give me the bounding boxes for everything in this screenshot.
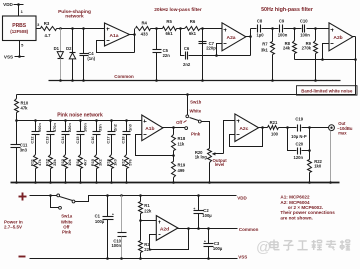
svg-text:120n: 120n xyxy=(294,155,304,160)
op-amp A1b xyxy=(142,115,163,141)
node R9 top xyxy=(314,27,317,30)
svg-text:D2: D2 xyxy=(66,46,72,51)
node C19 left xyxy=(286,126,289,129)
svg-text:@: @ xyxy=(256,239,271,256)
svg-text:Pink noise network: Pink noise network xyxy=(57,113,103,119)
svg-text:Band-limited white noise: Band-limited white noise xyxy=(301,89,353,94)
capacitor C10 supply xyxy=(111,196,126,259)
node A2b feedback left xyxy=(321,58,324,61)
capacitor C4 xyxy=(80,29,96,81)
svg-text:6k1: 6k1 xyxy=(166,31,174,36)
svg-text:R3: R3 xyxy=(44,21,50,26)
node 2 xyxy=(179,27,182,30)
resistor R4 xyxy=(136,21,151,37)
svg-text:R6: R6 xyxy=(190,19,196,24)
svg-text:499: 499 xyxy=(178,168,186,173)
svg-text:22k: 22k xyxy=(52,158,57,165)
node common rail at R9 xyxy=(314,79,317,82)
terminal plus xyxy=(19,193,27,201)
node common rail at R17 xyxy=(125,181,128,184)
svg-text:470n: 470n xyxy=(52,123,57,132)
capacitor C6 xyxy=(181,29,217,68)
svg-text:3k1: 3k1 xyxy=(261,48,269,53)
node C2 bottom xyxy=(197,227,200,230)
svg-text:2n2: 2n2 xyxy=(113,123,118,131)
resistor R7 xyxy=(261,29,275,81)
svg-text:3n3: 3n3 xyxy=(20,147,28,152)
op-amp A2a xyxy=(222,23,246,51)
node common rail at jack xyxy=(329,181,332,184)
node switch input xyxy=(49,194,52,197)
resistor R13 xyxy=(60,155,72,183)
wire A2a output xyxy=(246,36,251,38)
IC PRBS (12F508) xyxy=(3,16,37,41)
svg-text:6k1: 6k1 xyxy=(189,31,197,36)
svg-text:level: level xyxy=(215,162,225,167)
capacitor C18 xyxy=(120,121,132,155)
node common rail at C7 xyxy=(201,79,204,82)
svg-text:C17: C17 xyxy=(105,136,110,143)
wire A2d output xyxy=(178,228,238,230)
node C4 top xyxy=(82,27,85,30)
resistor R8 xyxy=(283,29,297,60)
wire output jack shield xyxy=(330,131,332,183)
svg-text:network: network xyxy=(65,13,84,19)
svg-text:100n: 100n xyxy=(300,33,310,38)
node common rail at R16 xyxy=(110,181,113,184)
wire A2b output xyxy=(353,37,356,95)
svg-text:Common: Common xyxy=(114,74,134,79)
node C3 top xyxy=(207,227,210,230)
label band-limited white noise xyxy=(297,86,358,95)
diode D1 xyxy=(54,29,64,81)
node C1 top xyxy=(106,194,109,197)
node A1b output xyxy=(172,126,175,129)
wire A1a feedback xyxy=(97,41,135,53)
svg-text:(12F508): (12F508) xyxy=(10,29,28,34)
svg-text:4.7: 4.7 xyxy=(45,33,52,38)
svg-text:R4: R4 xyxy=(141,21,147,26)
resistor R16 xyxy=(105,155,117,183)
capacitor C13 xyxy=(45,121,57,155)
svg-text:R7: R7 xyxy=(262,41,268,46)
wire A1a output xyxy=(130,29,135,53)
power label VSS xyxy=(4,55,13,60)
node common rail at R7 xyxy=(271,79,274,82)
capacitor C20 xyxy=(288,128,310,161)
wire R21 to C19 xyxy=(279,127,297,129)
capacitor C10 xyxy=(295,19,329,38)
node common rail at R22 xyxy=(308,181,311,184)
node A1a output xyxy=(133,33,136,36)
node common rail at C11 xyxy=(15,181,18,184)
svg-text:2k2: 2k2 xyxy=(98,158,103,165)
svg-text:Pink: Pink xyxy=(62,230,72,235)
node pink bus left xyxy=(15,119,18,122)
op-amp A1a xyxy=(105,23,130,46)
svg-text:10µ N-P: 10µ N-P xyxy=(291,134,307,139)
wire VDD stub xyxy=(14,4,24,6)
wire VDD to PRBS pin 1 xyxy=(18,5,20,17)
terminal minus xyxy=(19,256,26,258)
svg-text:C14: C14 xyxy=(60,136,65,144)
svg-text:220p: 220p xyxy=(206,46,216,51)
svg-text:White: White xyxy=(189,108,201,113)
node VSS junction xyxy=(18,55,21,58)
node common rail at R14 xyxy=(79,181,82,184)
svg-text:C20: C20 xyxy=(295,141,303,146)
svg-text:A1b: A1b xyxy=(145,126,154,132)
capacitor C16 xyxy=(90,121,102,155)
switch Sw1a xyxy=(57,194,75,235)
svg-text:R15: R15 xyxy=(90,158,95,166)
resistor R9 xyxy=(302,29,318,81)
node C19 right xyxy=(308,126,311,129)
wire R4 to node1 xyxy=(151,28,163,30)
node pink bus at C18 xyxy=(125,119,128,122)
svg-text:max: max xyxy=(338,131,347,136)
capacitor C8 xyxy=(251,19,273,38)
node common rail at R20 xyxy=(208,181,211,184)
node pink bus at C17 xyxy=(110,119,113,122)
resistor R14 xyxy=(75,155,87,183)
svg-text:D1: D1 xyxy=(54,46,60,51)
resistor R3 xyxy=(41,21,57,38)
svg-text:C8: C8 xyxy=(257,19,263,24)
capacitor C19 xyxy=(291,116,328,139)
svg-text:1µ0: 1µ0 xyxy=(257,33,265,38)
wire white throw drop xyxy=(187,95,189,115)
svg-text:4k7: 4k7 xyxy=(82,159,87,166)
node R22 top xyxy=(308,149,311,152)
wire pink bus xyxy=(17,120,142,122)
node R1 top xyxy=(139,194,142,197)
svg-text:900n: 900n xyxy=(37,123,42,132)
node pink bus at C12 xyxy=(34,119,37,122)
pin 5 label xyxy=(21,43,24,48)
svg-text:R18: R18 xyxy=(178,136,186,141)
resistor R17 xyxy=(120,155,132,183)
svg-text:C18: C18 xyxy=(120,136,125,144)
node common rail at R15 xyxy=(95,181,98,184)
svg-text:R16: R16 xyxy=(105,158,110,166)
node after C9 xyxy=(293,27,296,30)
svg-text:C19: C19 xyxy=(295,116,303,121)
node A2a feedback tee xyxy=(215,54,218,57)
svg-text:100µ: 100µ xyxy=(95,219,105,224)
svg-text:+: + xyxy=(112,212,114,216)
svg-text:2n2: 2n2 xyxy=(183,62,191,67)
resistor R11 xyxy=(30,155,42,183)
svg-text:C10: C10 xyxy=(300,19,308,24)
svg-text:R11: R11 xyxy=(30,158,35,166)
node D1 top xyxy=(59,27,62,30)
wire A2b feedback rail xyxy=(295,59,356,61)
svg-text:1n0: 1n0 xyxy=(128,124,133,131)
svg-text:C1: C1 xyxy=(95,213,101,218)
wire A2d feedback xyxy=(150,229,189,250)
node common rail at R19 xyxy=(172,181,175,184)
svg-text:A2a: A2a xyxy=(227,35,236,41)
svg-text:are not shown.: are not shown. xyxy=(280,215,312,220)
resistor R5 xyxy=(163,19,177,36)
capacitor C17 xyxy=(105,121,117,155)
node after C8 xyxy=(271,27,274,30)
svg-text:C16: C16 xyxy=(90,136,95,144)
node R18-R19 xyxy=(172,154,175,157)
node common rail at R11 xyxy=(34,181,37,184)
capacitor C15 xyxy=(75,121,87,155)
svg-text:A2c: A2c xyxy=(239,126,248,132)
node A2b output xyxy=(354,58,357,61)
capacitor C1 xyxy=(95,196,114,259)
svg-text:100n: 100n xyxy=(82,123,87,132)
wire A2c output xyxy=(259,127,268,129)
capacitor C7 xyxy=(199,29,217,81)
op-amp A2c xyxy=(235,114,259,142)
svg-text:R17: R17 xyxy=(120,159,125,166)
svg-text:A2b: A2b xyxy=(333,35,342,41)
svg-text:R5: R5 xyxy=(166,19,172,24)
node common rail at D2 xyxy=(71,79,74,82)
svg-text:VSS: VSS xyxy=(238,255,247,260)
resistor R12 xyxy=(45,155,57,183)
wire VSS rail xyxy=(30,258,238,260)
label output jack xyxy=(337,121,353,136)
capacitor C11 xyxy=(11,121,28,183)
capacitor C3 xyxy=(204,229,223,259)
wire VSS stub xyxy=(15,56,25,58)
note op-amp types xyxy=(280,195,335,221)
node pink bus at C16 xyxy=(95,119,98,122)
wire PRBS pin 5 to VSS xyxy=(19,41,21,57)
resistor R6 xyxy=(185,19,201,36)
svg-text:C15: C15 xyxy=(75,136,80,144)
resistor R10 xyxy=(15,95,29,121)
wire divider to A2d xyxy=(141,220,157,222)
svg-text:1k0: 1k0 xyxy=(113,159,118,166)
label pink noise network xyxy=(57,113,103,119)
wire A1b output xyxy=(163,127,185,129)
node VSS rail at C10b xyxy=(120,257,123,260)
node 3 xyxy=(201,27,204,30)
label VDD rail xyxy=(237,195,247,200)
label 50Hz high-pass filter xyxy=(261,7,313,13)
svg-text:50Hz high-pass filter: 50Hz high-pass filter xyxy=(261,7,313,13)
wire R3 to A1a input xyxy=(57,28,105,30)
wire pot wiper to A2c xyxy=(224,121,235,154)
switch Sw1b xyxy=(176,100,202,137)
node pink bus at C13 xyxy=(49,119,52,122)
svg-text:VDD: VDD xyxy=(237,195,247,200)
svg-text:22k: 22k xyxy=(144,208,152,213)
svg-text:576: 576 xyxy=(128,158,133,165)
wire A2c feedback xyxy=(230,128,263,147)
wire switch pole to pot xyxy=(202,122,210,149)
node A2d fb tap xyxy=(187,227,190,230)
svg-text:VDD: VDD xyxy=(3,2,13,7)
node common rail at R13 xyxy=(64,181,67,184)
node switch white tap xyxy=(186,93,189,96)
svg-text:R12: R12 xyxy=(45,158,50,166)
label pulse-shaping network xyxy=(58,9,91,19)
diode D2 xyxy=(66,29,76,81)
svg-text:R21: R21 xyxy=(270,120,278,125)
capacitor C9 xyxy=(273,19,295,38)
node common rail at D1 xyxy=(59,79,62,82)
svg-text:Off: Off xyxy=(176,120,183,125)
node pink bus at C14 xyxy=(64,119,67,122)
wire switch pole to VDD rail xyxy=(75,196,237,202)
capacitor C2 xyxy=(193,196,212,229)
node VSS rail at C3 xyxy=(207,257,210,260)
svg-text:11k: 11k xyxy=(178,142,185,147)
svg-text:1k log: 1k log xyxy=(195,154,208,159)
power label VDD xyxy=(3,2,13,7)
svg-text:C12: C12 xyxy=(30,136,35,144)
svg-text:100n: 100n xyxy=(278,33,288,38)
wire R5 to node2 xyxy=(177,28,185,30)
resistor R19 xyxy=(172,156,186,183)
node C2 top xyxy=(197,194,200,197)
svg-text:33n: 33n xyxy=(98,124,103,131)
svg-text:10k: 10k xyxy=(67,158,72,165)
wire A2a inverting feedback xyxy=(217,29,251,56)
svg-text:C9: C9 xyxy=(279,19,285,24)
node VDD junction xyxy=(17,3,20,6)
capacitor C14 xyxy=(60,121,72,155)
op-amp A2d xyxy=(156,216,178,241)
svg-text:Sw1b: Sw1b xyxy=(190,100,202,105)
capacitor C12 xyxy=(30,121,42,155)
svg-text:100µ: 100µ xyxy=(213,246,223,251)
resistor R1 xyxy=(139,196,152,221)
svg-text:Sw1a: Sw1a xyxy=(61,214,73,219)
node pink bus at C15 xyxy=(79,119,82,122)
wire A2b inverting riser xyxy=(323,44,329,60)
svg-text:C13: C13 xyxy=(45,136,50,144)
svg-text:2.7–5.5V: 2.7–5.5V xyxy=(4,225,22,230)
svg-text:VSS: VSS xyxy=(4,55,13,60)
svg-text:220n: 220n xyxy=(67,123,72,132)
svg-text:20kHz low-pass filter: 20kHz low-pass filter xyxy=(154,7,202,13)
svg-text:C6: C6 xyxy=(184,46,190,51)
svg-text:100: 100 xyxy=(271,131,279,136)
svg-text:R13: R13 xyxy=(60,158,65,166)
label Common (top rail) xyxy=(114,74,134,79)
svg-text:22n: 22n xyxy=(163,53,171,58)
capacitor C5 xyxy=(153,29,171,81)
label VSS rail xyxy=(238,255,247,260)
svg-text:Common: Common xyxy=(239,227,259,232)
svg-text:100n: 100n xyxy=(111,243,121,248)
svg-text:47k: 47k xyxy=(21,106,29,111)
node 1 xyxy=(155,27,158,30)
node C10b top xyxy=(120,194,123,197)
svg-text:Pink: Pink xyxy=(191,131,201,136)
node D2 top xyxy=(71,27,74,30)
node A2a output xyxy=(249,35,252,38)
node VSS rail at C1 xyxy=(106,257,109,260)
wire common rail mid xyxy=(11,182,340,184)
wire throw jumper xyxy=(51,196,59,208)
node common rail at C4 xyxy=(82,79,85,82)
svg-text:R14: R14 xyxy=(75,158,80,166)
op-amp A2b xyxy=(329,23,353,51)
svg-text:1k0: 1k0 xyxy=(314,164,322,169)
svg-text:47k: 47k xyxy=(37,158,42,165)
node VSS rail at R2 xyxy=(139,257,142,260)
label 20kHz low-pass filter xyxy=(154,7,202,13)
connector output jack xyxy=(329,125,335,131)
resistor R22 xyxy=(308,151,323,183)
node common rail at C5 xyxy=(155,79,158,82)
resistor R15 xyxy=(90,155,102,183)
wire R6 to A2a input xyxy=(201,28,223,30)
svg-text:R19: R19 xyxy=(178,163,186,168)
pin 1 label xyxy=(21,9,24,14)
watermark xyxy=(256,239,350,256)
resistor R2 xyxy=(139,221,152,259)
wire white noise rail xyxy=(17,94,356,96)
wire A1b feedback xyxy=(136,135,174,156)
svg-text:433: 433 xyxy=(141,31,149,36)
svg-text:100µ: 100µ xyxy=(202,213,212,218)
svg-text:(1n): (1n) xyxy=(87,56,95,61)
resistor R18 xyxy=(172,128,186,156)
svg-text:270k: 270k xyxy=(302,46,312,51)
wire PRBS pin 3 to R3 xyxy=(37,28,41,30)
wire common rail top xyxy=(49,80,341,82)
svg-text:+: + xyxy=(204,240,206,244)
svg-text:+: + xyxy=(193,207,195,211)
label power in xyxy=(4,219,23,229)
pin 3 label xyxy=(37,22,40,27)
svg-text:A2d: A2d xyxy=(160,226,169,232)
resistor R21 xyxy=(268,120,279,136)
potentiometer R20 xyxy=(195,149,224,183)
svg-text:A1a: A1a xyxy=(110,33,119,39)
label Common rail xyxy=(239,227,259,232)
wire plus to switch xyxy=(30,195,57,197)
node common rail at R12 xyxy=(49,181,52,184)
node R1-R2 xyxy=(139,219,142,222)
label output level xyxy=(213,158,228,167)
svg-text:24k: 24k xyxy=(283,46,291,51)
node A2c output xyxy=(261,126,264,129)
